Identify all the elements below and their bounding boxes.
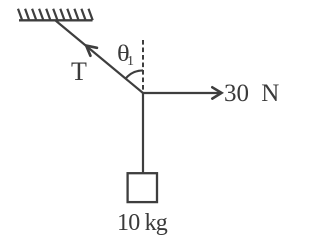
mass box 10 kg (128, 173, 157, 202)
dashed vertical reference line (142, 40, 144, 92)
arrowhead 30 N (212, 87, 221, 98)
label 30 N (224, 80, 279, 108)
label T (71, 57, 87, 87)
ceiling hatch marks (18, 9, 93, 21)
angle arc theta1 (126, 70, 143, 78)
label theta subscript 1 (127, 54, 134, 70)
wire: vertical string from junction to mass (142, 93, 144, 174)
label theta (117, 41, 130, 67)
label 10 kg (117, 210, 167, 237)
wire: horizontal 30 N force line (143, 92, 219, 94)
wire: string from ceiling to junction (56, 21, 144, 94)
ceiling baseline (19, 19, 93, 21)
arrowhead on tension T (points up-left along string) (86, 46, 97, 56)
